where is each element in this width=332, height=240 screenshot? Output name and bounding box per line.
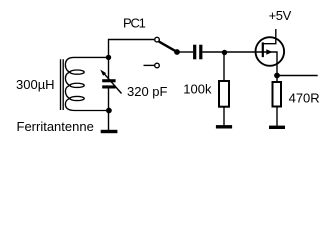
svg-text:300µH: 300µH (16, 77, 55, 92)
svg-text:320 pF: 320 pF (127, 84, 168, 99)
svg-text:PC1: PC1 (123, 16, 146, 31)
svg-text:+5V: +5V (269, 8, 292, 23)
svg-text:100k: 100k (183, 82, 212, 97)
svg-text:470R: 470R (289, 90, 320, 105)
svg-text:Ferritantenne: Ferritantenne (17, 119, 94, 134)
